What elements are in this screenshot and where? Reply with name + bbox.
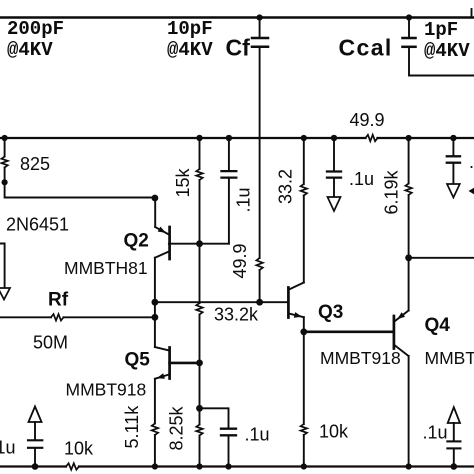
wire Q4 base [304, 330, 394, 333]
resistor 5.11k [122, 379, 158, 467]
svg-text:.1u: .1u [349, 169, 374, 189]
svg-text:@4KV: @4KV [424, 40, 470, 62]
svg-text:.1u: .1u [234, 187, 254, 212]
wire node to Q3 base [155, 301, 288, 303]
wire 49.9 to node [259, 270, 261, 302]
resistor 825 [1, 135, 50, 174]
node dots bottom bus [32, 463, 39, 470]
resistor 33.2 (Q3 collector) [276, 135, 308, 283]
capacitor .1u (right top) [447, 135, 474, 184]
ground arrow (2N6451 source) [0, 288, 10, 300]
capacitor .1u (parallel 15k) [222, 135, 254, 244]
svg-text:.1u: .1u [245, 425, 270, 445]
wire Q2 base [169, 243, 229, 245]
node dots second bus [196, 135, 202, 141]
resistor 49.9 (vertical, feedback leg) [230, 243, 263, 278]
transistor 2N6451 (cut off at edge) [0, 215, 69, 289]
svg-text:MMBTH81: MMBTH81 [64, 258, 148, 278]
label 1pF [424, 19, 470, 62]
transistor Q2 [64, 198, 170, 278]
svg-text:33.2k: 33.2k [214, 305, 259, 325]
svg-text:6.19k: 6.19k [382, 169, 402, 214]
svg-text:200pF: 200pF [7, 18, 64, 40]
transistor Q4 [394, 311, 474, 369]
svg-text:MMBT918: MMBT918 [320, 348, 401, 368]
svg-text:Q4: Q4 [425, 315, 451, 336]
resistor 49.9 (series in bus) [350, 110, 385, 141]
svg-text:Rf: Rf [48, 290, 69, 311]
svg-text:49.9: 49.9 [350, 110, 385, 130]
svg-text:10pF: 10pF [167, 18, 213, 40]
svg-text:15k: 15k [173, 167, 193, 197]
resistor Rf 50M [0, 290, 155, 353]
svg-text:10k: 10k [64, 439, 94, 459]
wire second bus [0, 137, 366, 139]
svg-text:@4KV: @4KV [167, 39, 213, 61]
wire Q2 collector down [154, 258, 156, 347]
resistor 8.25k [167, 363, 203, 467]
ground arrow (right top) [447, 184, 460, 198]
wire output right [409, 257, 474, 259]
wire bottom bus [0, 465, 66, 467]
svg-text:@4KV: @4KV [7, 39, 53, 61]
svg-text:2N6451: 2N6451 [6, 215, 69, 235]
node Q2 emitter top [152, 195, 159, 202]
resistor 33.2k [196, 303, 259, 363]
capacitor .1u (bottom right) [423, 423, 461, 467]
svg-text:10k: 10k [319, 422, 349, 442]
node .1u tap [196, 405, 203, 412]
resistor 6.19k [382, 135, 412, 258]
svg-text:.1u: .1u [0, 438, 16, 458]
wire to Q2 emitter [5, 168, 155, 198]
capacitor Ccal [339, 14, 416, 60]
transistor Q5 [66, 347, 200, 400]
capacitor Cf [226, 14, 269, 60]
wire top bus [0, 16, 474, 19]
capacitor .1u (Q5 base bypass) [200, 408, 270, 466]
svg-text:825: 825 [20, 154, 50, 174]
resistor 10k (Q3 emitter) [301, 332, 349, 467]
wire Q4 emitter up [408, 258, 410, 311]
wire Q3 emitter [303, 317, 305, 332]
svg-text:49.9: 49.9 [230, 243, 250, 278]
svg-text:MMBT918: MMBT918 [66, 380, 147, 400]
node Q4 emitter / output [405, 254, 412, 261]
node 49.9 / Q3 base wire [256, 299, 263, 306]
resistor 15k [173, 135, 203, 303]
label 10pF [167, 18, 213, 61]
transistor Q3 [288, 283, 400, 369]
node Q3 emitter / Q4 base [300, 328, 307, 335]
svg-text:5.11k: 5.11k [122, 405, 142, 449]
wire top-right stub [471, 9, 473, 18]
wire Cf down [259, 48, 261, 258]
svg-text:MMBT: MMBT [425, 348, 474, 368]
node collector / Rf [152, 314, 159, 321]
svg-text:Q2: Q2 [124, 231, 149, 252]
node 15k / Q2 base [196, 240, 203, 247]
supply arrow (bottom right) [448, 407, 460, 423]
wire Ccal output [409, 48, 474, 76]
svg-text:50M: 50M [33, 333, 68, 353]
svg-text:33.2: 33.2 [276, 169, 296, 204]
svg-text:.1u: .1u [423, 423, 448, 443]
node Q5 base [196, 360, 203, 367]
wire Q4 collector down [408, 356, 410, 467]
node 825 bottom [2, 179, 8, 185]
svg-text:Q5: Q5 [125, 350, 151, 371]
svg-text:1pF: 1pF [424, 19, 458, 41]
label 200pF [7, 18, 64, 61]
capacitor .1u (bus bypass) [327, 135, 374, 197]
svg-text:Cf: Cf [226, 35, 251, 61]
svg-text:Q3: Q3 [318, 302, 343, 323]
resistor 10k (series in bottom bus) [64, 439, 94, 470]
supply arrow (bottom left) [29, 407, 42, 423]
svg-text:.1u: .1u [469, 152, 474, 172]
capacitor .1u (bottom left) [0, 422, 42, 467]
arrow mark (cut label) [469, 188, 474, 194]
ground arrow (bus bypass) [328, 197, 341, 211]
svg-text:Ccal: Ccal [339, 35, 393, 61]
svg-text:8.25k: 8.25k [167, 405, 187, 450]
node collector / Q3 base wire [152, 299, 159, 306]
